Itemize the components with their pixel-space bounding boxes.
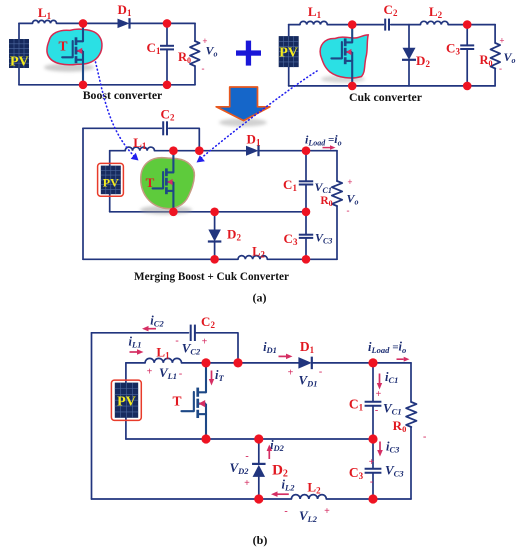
b: C2 branch top wire left [92,332,189,334]
diode D2 (merged) [208,230,221,242]
svg-text:+: + [202,337,208,348]
svg-text:PV: PV [10,55,29,70]
svg-text:-: - [284,506,287,517]
node: merged bottom junction at C3 [302,255,311,264]
transistor (cuk) source lead [351,61,353,86]
diode D2 (cuk) upper lead [408,25,410,48]
capacitor C3 (b) plates [365,468,382,470]
transistor T (boost) drain lead [82,23,84,41]
b iD2 arrow [268,451,270,459]
svg-text:+: + [347,177,352,187]
node: b bottom junction at D2 [254,494,263,503]
svg-text:+: + [324,506,330,517]
diode D2 (cuk) lower lead [408,61,410,86]
svg-text:-: - [375,405,378,416]
svg-text:VL1: VL1 [159,365,177,381]
svg-text:+: + [147,367,153,378]
capacitor C2 (cuk) plates [384,19,386,31]
svg-text:D2: D2 [272,463,288,480]
wire: cuk top, coil to C2 [327,24,383,26]
green blob (merged transistor highlight) [141,158,195,209]
node: cuk top-left junction [348,20,357,29]
svg-text:iD1: iD1 [263,340,277,355]
merged: C2 branch top wire right + drop [169,128,200,150]
svg-text:-: - [499,64,502,74]
node: merged mid junction at T source [169,208,178,217]
node: boost bottom-left junction [79,81,88,90]
svg-text:-: - [245,451,248,462]
svg-text:L1: L1 [38,5,52,21]
capacitor C1 (b) lower lead [372,406,374,439]
diode D2 (merged) upper lead [214,212,216,230]
diode D2 (merged) lower lead [214,243,216,260]
svg-text:-: - [319,367,322,378]
merged: top wire left segment [110,150,126,152]
b iL1 arrow [130,351,138,353]
svg-text:C3: C3 [349,465,364,481]
node: merged top junction at C2 branch [195,146,204,155]
PV panel (merged) [98,163,124,196]
plus sign between circuits [236,50,261,55]
wire: boost top, diode to right corner [130,22,196,24]
svg-text:L1: L1 [156,345,170,361]
node: cuk bottom-left junction [348,82,357,91]
transistor T (boost) source lead [82,60,84,85]
capacitor C3 (b) upper lead [372,439,374,469]
svg-text:-: - [175,336,178,347]
node: b mid junction at D2 [254,434,263,443]
svg-text:R0: R0 [393,418,407,434]
wire: cuk right edge lower [494,69,496,86]
node: merged top-right junction [302,146,311,155]
b: C2 branch top wire right + drop [195,333,238,363]
transistor T (merged) mosfet symbol [165,168,168,176]
wire: boost right edge lower [194,66,196,85]
node: b bottom junction at C3 [368,494,377,503]
svg-text:+: + [376,389,382,400]
node: merged mid junction at C1/C3 [302,208,311,217]
node: merged mid junction at D2 [210,208,219,217]
inductor L2 (cuk) coil [420,21,448,24]
svg-text:iC3: iC3 [386,440,400,455]
svg-text:C1: C1 [147,40,161,56]
svg-text:T: T [146,175,155,190]
merged: bottom outer wire right [267,258,337,260]
node: boost bottom-right junction [163,81,172,90]
svg-text:Boost converter: Boost converter [83,88,163,102]
svg-text:L1: L1 [308,4,322,20]
diode D1 (merged) [246,146,259,156]
svg-text:+: + [288,368,294,379]
PV panel (boost) [9,39,29,68]
svg-text:D2: D2 [416,53,430,69]
merged: PV branch vertical [109,151,111,212]
svg-text:C1: C1 [349,397,364,413]
svg-text:R0: R0 [479,53,492,68]
wire: merged top, D1 to right corner [259,150,338,152]
shadow under green blob [140,206,192,215]
svg-text:Cuk converter: Cuk converter [349,90,422,104]
b iD1 arrow [279,355,287,357]
svg-text:R0: R0 [178,50,191,65]
svg-text:iL1: iL1 [129,335,142,350]
svg-text:C3: C3 [284,231,298,247]
b iLoad red arrow [397,358,404,360]
svg-text:VD2: VD2 [229,460,249,476]
transistor (cuk) drain lead [351,25,353,43]
svg-text:L2: L2 [429,4,443,20]
b iC1 arrow [379,374,381,384]
svg-text:-: - [179,369,182,380]
b: bottom wire right [326,498,411,500]
capacitor C3 (cuk) plates [460,44,474,46]
transistor T (b) mosfet symbol [196,388,199,397]
svg-text:C2: C2 [201,314,215,330]
merged: bottom outer wire left [83,258,238,260]
svg-text:L2: L2 [307,480,321,496]
svg-text:iD2: iD2 [270,438,285,453]
wire: cuk top, L2 to right corner [448,24,495,26]
svg-text:VC2: VC2 [182,341,201,357]
capacitor C1 (merged) lower lead [305,185,307,212]
svg-text:(a): (a) [253,291,267,305]
inductor L1 (merged) coil [125,147,154,151]
transistor T (merged) drain lead [172,151,174,173]
big blue down arrow (merge) [216,87,270,121]
wire: boost bottom [19,84,195,86]
merged iLoad red arrow [323,147,331,149]
node: b top-right junction [368,358,377,367]
wire: boost top, coil to diode [57,22,118,24]
resistor Ro (cuk) zigzag [491,43,501,69]
shadow under big arrow [219,119,267,127]
svg-text:R0: R0 [320,195,332,208]
b iT arrow [211,371,213,380]
transistor (cuk) mosfet symbol [344,38,347,46]
node: b mid junction at T source [201,434,210,443]
svg-text:PV: PV [103,176,119,190]
resistor Ro (b) zigzag [406,402,416,427]
capacitor C1 (merged) upper lead [305,151,307,182]
wire: cuk right edge upper [494,25,496,43]
PV panel (cuk) [279,36,299,67]
svg-text:+: + [369,457,375,468]
node: cuk top-right junction [463,20,472,29]
capacitor C1 (merged) plates [299,180,313,182]
transistor T (b) drain lead [205,363,207,392]
diode D2 (b) [253,465,265,477]
dashed arrow: boost blob to merged blob [96,62,136,157]
capacitor C2 (merged) plates [162,121,164,135]
diode D1 (b) [298,357,311,369]
svg-text:Vo: Vo [503,50,515,65]
cuk: top wire left segment [289,24,300,26]
svg-text:C2: C2 [161,107,175,123]
svg-text:D1: D1 [247,132,261,148]
b: PV branch vertical [125,363,127,439]
cuk converter: left vertical wire [288,25,290,86]
capacitor C3 (cuk) upper lead [466,25,468,46]
inductor L1 (boost) coil [33,20,57,23]
merged: outer C2-loop left vertical [82,128,84,259]
capacitor C3 (b) lower lead [372,473,374,499]
svg-text:iL2: iL2 [282,478,296,493]
node: boost top-right junction [163,19,172,28]
shadow under boost blob [44,63,94,71]
node: boost top-left junction [79,19,88,28]
merged: inner bottom wire [110,211,306,213]
cyan blob (cuk transistor highlight) [320,35,368,78]
svg-text:VC3: VC3 [315,231,332,246]
svg-text:VD1: VD1 [298,373,317,389]
capacitor C3 (merged) upper lead [305,212,307,235]
node: b mid junction at C1/C3 [368,434,377,443]
svg-text:iLoad =io: iLoad =io [305,132,342,148]
svg-text:iT: iT [215,368,224,383]
b: bottom wire left [92,498,292,500]
svg-text:Merging Boost + Cuk Converter: Merging Boost + Cuk Converter [134,271,289,283]
merged: right edge lower [336,206,338,259]
svg-text:VC3: VC3 [385,463,404,479]
b: right edge upper [410,363,412,402]
inductor L1 (b) coil [145,358,181,363]
b: outer left vertical [91,333,93,499]
svg-text:-: - [370,477,373,488]
svg-text:D1: D1 [300,339,315,355]
resistor Ro (boost) zigzag [190,41,200,66]
node: merged top junction at T [169,146,178,155]
svg-text:T: T [58,39,67,54]
svg-text:L2: L2 [252,245,265,260]
capacitor C2 (b) plates [190,325,192,341]
b: top wire left segment [126,362,145,364]
inductor L2 (b) coil [291,495,326,499]
svg-text:PV: PV [117,395,136,410]
boost converter: left vertical wire [18,23,20,84]
node: cuk bottom-right junction [463,82,472,91]
dashed arrow: cuk blob to merged blob [200,71,318,160]
node: merged bottom junction at D2 [210,255,219,264]
capacitor C1 (boost) upper lead [166,23,168,45]
svg-text:T: T [172,394,181,409]
b: right edge lower [410,427,412,499]
svg-text:C2: C2 [384,2,398,18]
b: inner mid wire [126,438,373,440]
capacitor C3 (cuk) lower lead [466,49,468,86]
svg-text:-: - [347,206,350,216]
b: top wire D1 to right corner [312,362,411,364]
node: b top junction at T [201,358,210,367]
transistor T (boost) mosfet symbol [75,37,78,45]
svg-text:C1: C1 [283,177,297,193]
transistor T (b) source lead [205,414,207,439]
capacitor C1 (boost) lower lead [166,49,168,84]
b iC2 arrow [149,328,157,330]
wire: merged top, coil to D1 [155,150,247,152]
resistor Ro (merged) zigzag [332,181,342,206]
b iL2 arrow [278,493,289,495]
svg-text:Vo: Vo [347,192,359,207]
diode D2 (cuk) [403,48,416,60]
b: top wire L1 to D1 [182,362,299,364]
wire: boost right edge upper [194,23,196,41]
svg-text:-: - [423,432,426,443]
svg-text:-: - [202,64,205,74]
diode D2 (b) upper lead [258,439,260,464]
svg-text:PV: PV [279,46,298,61]
b iC3 arrow [379,442,381,451]
svg-text:C3: C3 [446,41,460,57]
svg-text:VC1: VC1 [383,401,402,417]
transistor T (merged) source lead [172,191,174,212]
svg-text:D1: D1 [118,2,132,18]
inductor L1 (cuk) coil [300,21,327,24]
svg-text:VL2: VL2 [299,508,318,524]
PV panel (b) [111,380,141,420]
capacitor C1 (b) upper lead [372,363,374,402]
svg-text:+: + [499,36,504,46]
diode D1 (boost) [118,19,130,29]
svg-text:+: + [244,478,250,489]
boost converter: top wire left segment [19,22,33,24]
svg-text:VC1: VC1 [315,180,332,195]
merged: C2 branch top wire left [83,127,161,129]
capacitor C1 (b) plates [365,401,382,403]
merged: right edge upper [336,151,338,181]
svg-text:iC2: iC2 [150,314,164,329]
wire: cuk top, C2 to L2 [391,24,421,26]
cyan blob (boost transistor highlight) [47,29,102,65]
svg-text:iC1: iC1 [385,370,398,385]
svg-text:D2: D2 [227,227,241,243]
capacitor C1 (boost) plates [160,45,174,47]
node: b top junction at C2 branch [233,358,242,367]
shadow under cuk blob [321,75,365,83]
svg-text:iLoad =io: iLoad =io [368,340,406,356]
svg-text:L1: L1 [133,135,147,151]
inductor L2 (merged) coil [238,256,267,260]
svg-text:(b): (b) [253,533,268,547]
svg-text:Vo: Vo [205,44,217,59]
capacitor C3 (merged) lower lead [305,238,307,259]
capacitor C3 (merged) plates [299,234,313,236]
diode D2 (b) lower lead [258,477,260,499]
wire: cuk bottom [289,85,495,87]
